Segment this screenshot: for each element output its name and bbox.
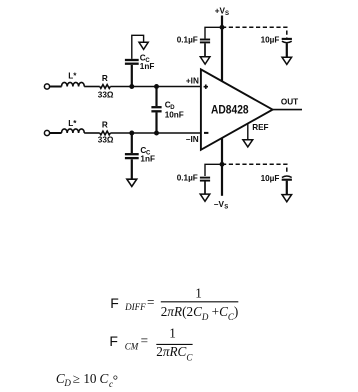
wire top node to Cd (155, 87, 157, 107)
label L* (bottom) (68, 119, 77, 128)
label 10µF (bottom) (261, 174, 280, 183)
svg-text:–V: –V (214, 200, 225, 209)
ground at REF (243, 140, 253, 147)
wire bottom node to Cc (bottom) (131, 133, 133, 153)
svg-text:10µF: 10µF (261, 36, 280, 45)
op-amp - input mark (204, 132, 208, 134)
capacitor Cc 1nF (bottom) (125, 154, 139, 158)
svg-text:S: S (224, 205, 228, 211)
svg-text:=: = (147, 295, 154, 310)
wire C4 to ground (286, 181, 288, 195)
svg-text:1nF: 1nF (140, 155, 155, 164)
svg-text:D: D (63, 378, 71, 388)
svg-text:1: 1 (169, 326, 176, 341)
pin label -IN (186, 135, 199, 144)
label Cd (165, 101, 176, 112)
svg-text:°: ° (113, 373, 118, 388)
label 10nF (165, 110, 184, 119)
svg-text:F: F (109, 333, 118, 349)
wire C1 to ground (204, 43, 206, 56)
wire Cc(top) up and over to ground arrow (132, 35, 144, 59)
wire C3 to ground (204, 182, 206, 194)
svg-text:DIFF: DIFF (124, 302, 146, 312)
label Cc (bottom) (140, 146, 151, 157)
label 0.1µF (top) (177, 36, 198, 45)
svg-text:33Ω: 33Ω (98, 136, 114, 145)
wire dashed -VS to C4 (222, 164, 287, 174)
equation Fdiff = 1/(2piR(2Cd+Cc)) (110, 286, 238, 322)
label R (bottom) (102, 120, 108, 129)
inductor L* (bottom) (62, 129, 85, 133)
resistor R 33Ω (bottom) (100, 131, 111, 135)
label Cc (top) (140, 53, 151, 64)
svg-text:≥ 10: ≥ 10 (73, 371, 97, 386)
label R (top) (102, 74, 108, 83)
op-amp + input mark (204, 85, 208, 89)
wire Cc(top) to top wire node (131, 65, 133, 87)
wire terminal to L (top) (50, 86, 62, 88)
svg-text:REF: REF (252, 123, 268, 132)
equation Cd >= 10 Cc (56, 371, 118, 389)
label 0.1µF (bottom) (177, 174, 198, 183)
wire C2 to ground (286, 43, 288, 57)
ground below C3 (200, 194, 210, 201)
svg-text:=: = (141, 333, 148, 348)
pin label REF (252, 123, 268, 132)
inductor L* (top) (62, 82, 85, 86)
wire L to R (bottom) (84, 132, 100, 134)
svg-text:R: R (102, 74, 108, 83)
wire +VS supply vertical to op-amp V+ pin (221, 16, 223, 85)
ground below C4 (282, 195, 292, 202)
svg-text:0.1µF: 0.1µF (177, 174, 198, 183)
svg-text:OUT: OUT (281, 97, 298, 106)
wire from top supply node to C1 (205, 27, 221, 38)
ground at Cc (top) (139, 42, 148, 49)
capacitor C2 10µF polarized (top) (282, 39, 292, 43)
label 1nF (top) (140, 62, 155, 71)
label 33Ω (bottom) (98, 136, 114, 145)
svg-text:+IN: +IN (186, 76, 199, 85)
label L* (top) (68, 71, 77, 80)
ground below C1 (200, 57, 210, 64)
svg-text:33Ω: 33Ω (98, 90, 114, 99)
op-amp U1 AD8428 (triangle body) (201, 69, 273, 149)
wire L to R (top) (84, 86, 100, 88)
svg-text:L*: L* (68, 71, 77, 80)
svg-text:L*: L* (68, 119, 77, 128)
capacitor C3 0.1µF (supply decoupling, bottom) (200, 178, 210, 181)
equation Fcm = 1/(2piRCc) (109, 326, 193, 363)
label 10µF (top) (261, 36, 280, 45)
junction node: bottom wire / Cc (bottom) (129, 131, 134, 136)
label AD8428 (211, 103, 249, 117)
svg-text:–IN: –IN (186, 135, 199, 144)
input terminal (bottom input) (44, 130, 49, 135)
junction node: bottom wire / Cd (154, 131, 159, 136)
wire Cc(bottom) to ground (131, 159, 133, 179)
capacitor C4 10µF polarized (bottom) (282, 176, 292, 180)
svg-text:+V: +V (215, 7, 226, 16)
ground below C2 (282, 57, 292, 64)
capacitor Cc 1nF (top) (125, 60, 139, 64)
pin label OUT (281, 97, 298, 106)
wire OUT from op-amp apex (273, 109, 302, 111)
junction bottom supply node (220, 162, 225, 167)
wire Cd to bottom node (155, 113, 157, 134)
label 33Ω (top) (98, 90, 114, 99)
net +VS label (215, 7, 229, 18)
resistor R 33Ω (top) (100, 85, 111, 89)
junction top supply node (220, 25, 225, 30)
svg-text:1: 1 (195, 286, 202, 301)
svg-text:CM: CM (125, 342, 139, 352)
pin label +IN (186, 76, 199, 85)
fraction bar (eq 2) (156, 343, 192, 345)
wire R to op-amp +IN (110, 86, 201, 88)
net -VS label (214, 200, 228, 211)
svg-text:10nF: 10nF (165, 110, 184, 119)
wire -VS supply vertical from op-amp V- pin (221, 135, 223, 196)
svg-text:1nF: 1nF (140, 62, 155, 71)
capacitor Cd 10nF (151, 107, 161, 111)
svg-text:C: C (100, 371, 109, 386)
junction node: top wire / Cc (top) (129, 84, 134, 89)
svg-text:R: R (102, 120, 108, 129)
label 1nF (bottom) (140, 155, 155, 164)
svg-text:10µF: 10µF (261, 174, 280, 183)
input terminal (top input) (44, 84, 49, 89)
fraction bar (eq 1) (161, 301, 239, 303)
junction node: top wire / Cd (154, 84, 159, 89)
svg-text:F: F (110, 295, 119, 311)
wire from bottom supply node to C3 (205, 164, 221, 176)
svg-text:0.1µF: 0.1µF (177, 36, 198, 45)
wire terminal to L (bottom) (50, 132, 62, 134)
svg-text:S: S (225, 11, 229, 17)
svg-text:AD8428: AD8428 (211, 103, 249, 117)
ground below Cc (bottom) (127, 179, 137, 186)
wire REF pin down from op-amp (247, 123, 249, 139)
wire R to op-amp -IN (110, 132, 201, 134)
capacitor C1 0.1µF (supply decoupling, top) (200, 40, 210, 43)
wire dashed +VS to C2 (222, 27, 287, 37)
